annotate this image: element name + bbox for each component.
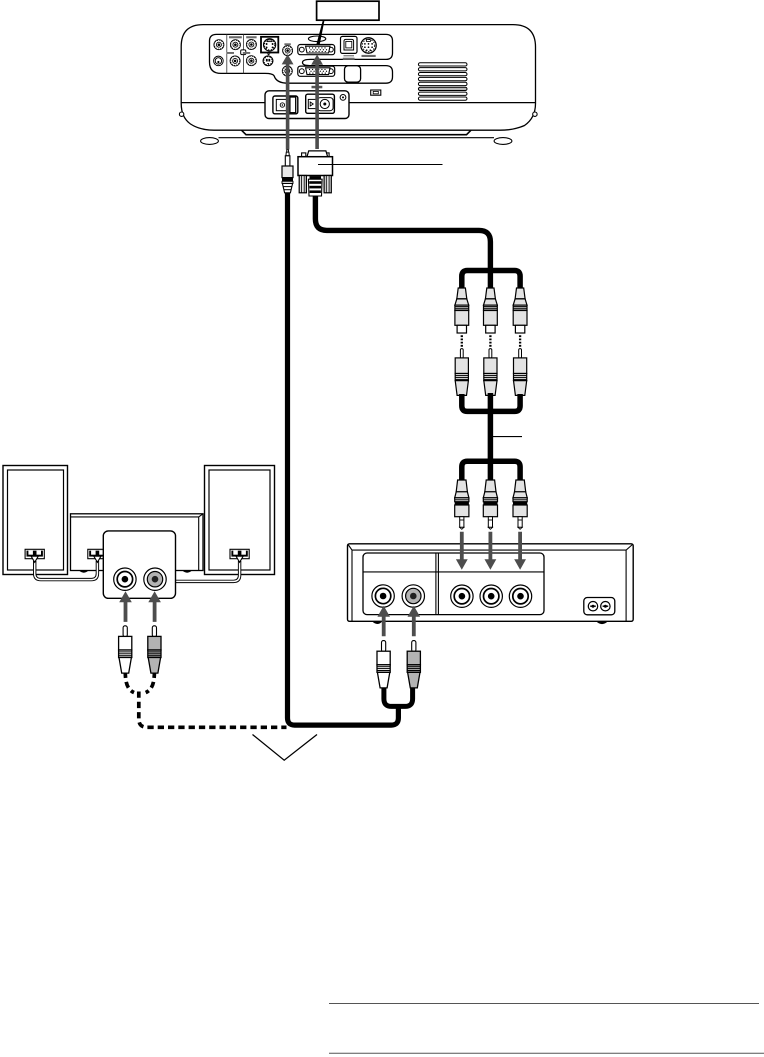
- RCA jack audio L top: [230, 40, 240, 50]
- MONITOR OUT VGA port: [298, 66, 335, 76]
- cable label leader: [493, 436, 522, 438]
- dashed audio cable to amp: [125, 672, 286, 728]
- amplifier body: [71, 514, 204, 571]
- tiny port labels: [227, 36, 355, 60]
- projector case seam: [181, 102, 535, 104]
- VGA label leader line: [318, 164, 443, 166]
- footer rule lower: [329, 1052, 764, 1054]
- female RCA Cr: [513, 288, 527, 333]
- component adapter top split bar: [462, 271, 520, 290]
- audio mini cable (projector to DVD audio): [288, 193, 399, 726]
- DVD RCA plug white: [377, 641, 390, 688]
- speaker wire right: [176, 561, 240, 581]
- amp input panel: [103, 531, 175, 598]
- left speaker terminal: [25, 549, 44, 562]
- female RCA Y: [455, 288, 469, 333]
- amp RCA plug white: [119, 626, 132, 673]
- DVD component Y jack: [451, 585, 473, 607]
- V junction mark: [253, 735, 318, 761]
- AC panel: [265, 86, 349, 119]
- DVD audio R jack: [402, 585, 424, 607]
- RCA jack audio L bottom: [230, 56, 240, 66]
- projector bottom base line: [219, 137, 495, 139]
- COMPUTER IN VGA port: [298, 45, 335, 55]
- USB port: [341, 36, 358, 55]
- arrow into amp R: [148, 591, 161, 622]
- DVD RCA plug gray: [407, 641, 420, 688]
- projector left rear foot: [201, 138, 219, 145]
- mini DIN jack below S-video: [263, 54, 273, 66]
- dotted mate line 1: [461, 335, 463, 347]
- audio out jack lower: [282, 66, 292, 76]
- arrow into component Cb: [485, 532, 497, 570]
- RCA jack audio R top: [246, 39, 256, 49]
- connector recess panel: [210, 34, 393, 83]
- amp RCA plug gray: [148, 626, 161, 673]
- component plug down 3: [513, 480, 527, 529]
- adapter merge bar: [462, 394, 520, 411]
- S-video port: [261, 37, 278, 53]
- DVD component Cb jack: [480, 585, 502, 607]
- amp audio R jack: [144, 568, 166, 590]
- arrow into COMPUTER IN: [311, 55, 323, 150]
- kensington slot: [371, 90, 381, 95]
- DVD player body: [348, 544, 634, 622]
- projector left side knob: [179, 112, 183, 116]
- component plug down 2: [483, 480, 497, 529]
- mini plug 3.5mm: [282, 150, 293, 193]
- recess divider lines: [226, 34, 228, 73]
- RCA jack audio R bottom: [246, 56, 256, 66]
- footer rule upper: [329, 1003, 759, 1005]
- arrow into component Cr: [514, 532, 526, 570]
- VGA cable (projector to component adapter): [315, 196, 490, 290]
- amp left foot: [79, 571, 89, 573]
- exhaust vent grille: [418, 63, 467, 101]
- DVD left foot: [372, 621, 383, 624]
- projector body: [181, 25, 535, 131]
- arrow into AUD jack: [282, 54, 294, 149]
- DVD jack recess panel: [363, 553, 544, 615]
- DVD AC inlet: [584, 598, 615, 615]
- DVD right foot: [596, 621, 608, 624]
- RCA jack video column top: [214, 40, 224, 50]
- small screw square: [241, 50, 246, 55]
- DVD component Cr jack: [509, 585, 531, 607]
- projector right rear foot: [494, 138, 512, 145]
- arrow out DVD audio R: [408, 606, 421, 637]
- arrow into component Y: [456, 532, 468, 570]
- projector right side knob: [533, 112, 537, 116]
- callout leader wedge: [316, 20, 324, 44]
- female RCA Cb: [484, 288, 498, 333]
- dotted mate line 2: [489, 335, 491, 347]
- projector bottom lip: [242, 130, 472, 135]
- lower split bar: [462, 461, 520, 481]
- VGA plug connector: [298, 151, 333, 196]
- right speaker: [205, 466, 275, 575]
- speaker wire left: [35, 561, 98, 580]
- callout label box: [317, 1, 379, 20]
- service square port: [345, 66, 361, 83]
- video jack bottom-left: [214, 56, 224, 66]
- right speaker terminal: [230, 549, 249, 562]
- amp right foot: [182, 571, 192, 573]
- AUD mini jack: [283, 46, 293, 56]
- dotted mate line 3: [519, 335, 521, 347]
- amp audio L jack: [114, 568, 136, 590]
- amp speaker terminal: [88, 549, 107, 562]
- male RCA up 3: [514, 349, 527, 396]
- left speaker: [3, 466, 68, 575]
- oval cable entry above VGA: [308, 36, 325, 42]
- arrow out DVD audio L: [377, 606, 390, 637]
- male RCA up 1: [455, 349, 468, 396]
- male RCA up 2: [484, 349, 497, 396]
- arrow into amp L: [119, 591, 132, 622]
- component cable center run: [488, 393, 494, 481]
- component plug down 1: [455, 480, 469, 529]
- DVD audio L jack: [372, 585, 394, 607]
- audio RCA pair U split: [384, 687, 413, 706]
- PC CONTROL port: [361, 38, 376, 57]
